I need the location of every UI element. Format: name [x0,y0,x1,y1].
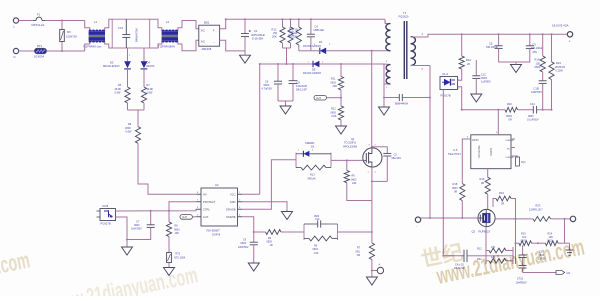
svg-text:0603: 0603 [331,111,337,114]
svg-text:10R: 10R [352,182,357,185]
svg-text:10nF/50V: 10nF/50V [131,228,142,231]
svg-text:C?03: C?03 [517,278,524,281]
svg-text:C8: C8 [297,81,301,85]
resistor R18 [452,139,471,218]
capacitor C1C [472,60,491,94]
svg-text:0603: 0603 [264,83,270,87]
ic U5 [448,110,518,169]
wire HV [138,143,197,194]
svg-text:U1-A: U1-A [442,72,448,76]
wire secondary return [421,66,431,219]
mosfet Q1 [343,51,382,232]
optocoupler U3B [97,204,116,226]
svg-text:SOP-8: SOP-8 [212,233,221,237]
svg-text:U2: U2 [215,183,219,187]
svg-text:75A-3D60T: 75A-3D60T [206,228,220,232]
svg-text:D5: D5 [312,68,316,72]
svg-text:0R: 0R [509,117,512,121]
svg-text:C4: C4 [315,25,319,29]
svg-text:BD1: BD1 [204,20,210,24]
wire DC bus+ [220,18,391,29]
capacitor C17 [516,265,527,284]
terminal secondary gnd [415,217,420,229]
svg-text:R1C: R1C [272,28,277,32]
svg-text:0603: 0603 [506,114,512,118]
capacitor C16 [519,245,547,265]
transformer T1 core [399,11,409,79]
svg-text:18.5V/3.42A: 18.5V/3.42A [552,24,569,28]
wire minus rail [495,218,533,220]
svg-text:CRE4B1: CRE4B1 [305,142,315,145]
svg-text:104/R50V: 104/R50V [516,281,527,284]
svg-text:F1: F1 [37,13,41,17]
diode D2 [296,142,331,168]
svg-text:12HR/1.2K7: 12HR/1.2K7 [529,209,543,212]
resistor R4A [458,34,472,80]
svg-text:R16: R16 [480,177,485,181]
svg-text:CTRL: CTRL [203,208,210,212]
resistor R21 [516,156,526,166]
svg-text:0.25W: 0.25W [556,70,564,73]
wire [278,101,293,106]
ground [379,107,390,115]
capacitor C9 [238,232,258,263]
resistor R22 [477,256,506,263]
svg-text:0603: 0603 [313,248,319,251]
svg-text:B5M4440M: B5M4440M [395,103,408,106]
svg-text:0603: 0603 [331,81,337,84]
capacitor C8 [289,64,308,101]
svg-text:C14: C14 [530,102,535,106]
svg-text:0R/1A8: 0R/1A8 [308,177,317,180]
svg-text:400V/100uF: 400V/100uF [251,33,266,37]
svg-text:2K: 2K [467,62,470,66]
varistor RV [60,21,78,52]
svg-text:R23: R23 [536,204,541,208]
svg-text:0603: 0603 [174,228,180,231]
wire [128,110,145,127]
transformer T1 aux winding [384,61,391,89]
svg-text:HV: HV [203,193,207,197]
svg-text:ABF408: ABF408 [202,47,212,51]
capacitor C5 [486,34,516,62]
svg-text:C7: C7 [136,220,140,224]
wire gnd pin [242,202,287,212]
resistor R16 [480,169,491,210]
svg-text:GPIO: GPIO [472,138,479,142]
wire sense [253,231,266,233]
svg-text:R4A: R4A [466,58,471,62]
svg-text:R24: R24 [556,61,561,65]
wire [383,64,385,107]
wire [551,218,571,220]
capacitor C14 [527,102,539,121]
svg-text:681/1KV: 681/1KV [392,157,402,160]
svg-text:D1: D1 [319,40,323,44]
svg-text:2W: 2W [290,30,294,34]
capacitor C7 [127,211,155,240]
earth ground [565,243,574,255]
svg-text:12K: 12K [536,61,541,65]
svg-text:SM-100uF: SM-100uF [531,46,544,50]
wire gate line [421,217,478,219]
ground [336,126,347,134]
wire [281,231,304,233]
svg-text:0603: 0603 [521,239,527,242]
svg-text:220P/50V: 220P/50V [238,246,249,249]
diode D1 [303,40,331,54]
wire bridge minus [220,40,245,51]
resistor R5B [304,236,338,255]
optocoupler U1A [440,72,460,98]
svg-text:100P/50V: 100P/50V [531,91,542,94]
svg-text:RT2: RT2 [176,253,181,256]
svg-text:TEA1761T: TEA1761T [448,152,461,156]
wire [304,231,373,233]
wire gate [296,159,364,161]
svg-text:0.6W: 0.6W [147,92,153,95]
wire [19,50,35,52]
svg-text:4.7uF/50: 4.7uF/50 [262,87,273,91]
svg-text:AUX: AUX [203,215,209,219]
svg-text:10K: 10K [175,232,180,235]
resistor R3 [288,19,301,51]
resistor R5 [115,84,131,110]
diode D5 [303,61,324,75]
resistor R11 [331,63,344,106]
svg-text:2W: 2W [273,31,277,35]
svg-text:R20: R20 [507,102,512,106]
svg-text:PC817B: PC817B [441,94,451,98]
capacitor C2 [371,146,402,183]
transformer T1 primary [385,22,391,51]
svg-text:U3-B: U3-B [102,204,108,208]
svg-text:0-0B/0B: 0-0B/0B [506,140,514,142]
svg-text:R12: R12 [331,108,336,111]
svg-text:C2: C2 [394,152,398,156]
svg-text:D3: D3 [110,61,114,65]
svg-text:RECOF: RECOF [147,66,156,68]
svg-text:DRAIN: DRAIN [490,148,493,156]
svg-text:OSR/0B: OSR/0B [226,215,236,219]
wire [45,20,85,22]
svg-text:A: A [379,262,381,266]
resistor R14 [545,233,558,246]
resistor R24 [549,34,566,109]
net flag AUX2 [314,95,342,100]
ground [280,106,291,114]
resistor R13 [296,165,331,180]
resistor R12 parallel [477,246,513,264]
resistor R7B [141,84,153,110]
svg-text:DRV/0B: DRV/0B [226,208,236,212]
svg-text:T12PNR-08HH: T12PNR-08HH [158,45,175,48]
svg-text:R18: R18 [453,182,458,186]
transformer T1 secondary [411,33,424,71]
test point A [371,262,384,273]
svg-text:49.9K: 49.9K [147,88,154,91]
svg-text:1.8K: 1.8K [314,252,319,255]
svg-text:C1C: C1C [481,73,486,77]
svg-text:0603: 0603 [452,187,458,190]
svg-text:0603: 0603 [535,65,541,69]
svg-text:U-5: U-5 [453,148,458,152]
wire drain node [326,50,390,52]
svg-text:D8-11.5P: D8-11.5P [296,88,307,92]
svg-text:C5: C5 [489,42,493,46]
svg-text:GND: GND [230,200,236,204]
terminal J2 neutral input [13,48,18,59]
svg-text:DR.SENSE: DR.SENSE [478,145,481,158]
svg-text:RS1OF-GRR1H: RS1OF-GRR1H [303,72,321,75]
resistor R1D [288,19,298,48]
choke L1 [83,19,112,51]
svg-text:HPOL10N60: HPOL10N60 [343,145,358,148]
fuse F1 [32,13,46,27]
svg-text:100uF/25: 100uF/25 [296,84,308,88]
wire protect [169,202,197,211]
svg-text:AUX: AUX [316,97,321,100]
capacitor CY1 [384,94,430,106]
resistor R9 [125,123,141,143]
svg-text:1uF/50V: 1uF/50V [481,80,491,84]
svg-text:RUF8623: RUF8623 [479,230,491,234]
svg-text:C1B: C1B [534,87,539,91]
thermistor RT1 [34,44,47,59]
diode D3 [103,48,131,87]
svg-text:PC817B: PC817B [101,221,111,225]
resistor R19 [493,191,516,219]
ground [248,263,259,271]
watermark [0,234,586,301]
wire sense line [515,219,565,264]
svg-text:220K: 220K [288,34,294,38]
svg-text:NTC-100K: NTC-100K [174,256,186,259]
net flag AUX [180,215,197,220]
svg-text:0R1: 0R1 [356,250,361,253]
resistor R15 [519,233,532,246]
svg-text:PQ2620: PQ2620 [399,15,409,19]
wire [19,20,33,22]
wire [283,48,291,65]
svg-text:C1: C1 [254,29,258,33]
svg-text:0.6W: 0.6W [115,92,121,95]
svg-text:GN: GN [567,272,571,275]
ground [282,212,293,220]
svg-text:+: + [569,39,571,43]
svg-text:CBB-22E: CBB-22E [314,29,325,32]
svg-text:T12PNR4O-Line: T12PNR4O-Line [83,45,102,48]
svg-text:25V: 25V [533,50,538,54]
resistor R8 [166,211,180,253]
resistor R4 [266,230,282,248]
svg-text:TO-220F/2: TO-220F/2 [344,142,357,145]
svg-text:0R: 0R [454,191,457,194]
svg-text:D-18-35H: D-18-35H [252,37,263,41]
svg-text:0603: 0603 [351,178,357,181]
resistor R23 [529,204,551,222]
svg-text:CX1: CX1 [118,26,124,30]
wire feedback [458,87,462,110]
svg-text:RT1: RT1 [37,44,43,48]
svg-text:R1A: R1A [535,58,540,62]
wire output bus [421,33,567,37]
svg-text:R11: R11 [331,78,336,81]
capacitor C15 [443,250,482,271]
svg-text:R13: R13 [310,174,315,177]
svg-text:R12: R12 [477,248,482,251]
terminal output plus [552,24,573,44]
capacitor CX1 [112,19,150,48]
svg-text:+: + [213,29,215,33]
svg-text:0R: 0R [501,203,504,206]
svg-text:0603: 0603 [481,76,487,80]
capacitor C3 [516,34,544,62]
svg-text:0.1uF/50V: 0.1uF/50V [527,118,539,121]
svg-text:SCK054: SCK054 [34,55,45,59]
resistor R1C [272,19,286,48]
svg-text:0R: 0R [481,182,484,185]
wire [47,50,85,52]
capacitor C6 [262,64,283,101]
svg-text:D4: D4 [147,61,151,65]
svg-text:0603: 0603 [528,115,534,118]
svg-text:6.8K: 6.8K [332,115,337,118]
svg-text:RS1OF-GRR1H: RS1OF-GRR1H [303,45,321,48]
svg-text:PROTECT: PROTECT [203,200,216,204]
capacitor C1B [531,72,547,110]
svg-text:Q2: Q2 [472,230,476,234]
svg-text:43R: 43R [333,85,338,88]
wire [486,227,513,256]
svg-text:R19: R19 [499,191,504,195]
wire vcc [242,63,261,194]
svg-text:0603: 0603 [314,216,320,218]
svg-text:T1: T1 [403,11,407,15]
resistor R6 [344,160,372,200]
svg-text:28.8K1%: 28.8K1% [555,66,566,69]
svg-text:20K: 20K [272,35,277,39]
svg-text:0.6W: 0.6W [126,131,132,134]
svg-text:R3: R3 [289,27,293,31]
thermistor RT2 [167,253,186,268]
svg-text:VCC: VCC [230,193,236,197]
capacitor C1 [241,19,266,51]
capacitor C4 [307,19,324,51]
svg-text:NC: NC [507,149,511,151]
svg-text:Q1: Q1 [351,137,355,141]
terminal J1 line input [13,18,18,29]
svg-text:MST31-2A: MST31-2A [32,23,45,27]
net flag GND out [523,271,571,275]
svg-text:C6: C6 [265,80,269,84]
wire [299,50,311,52]
svg-text:1R: 1R [270,244,273,247]
svg-text:0603: 0603 [267,241,273,244]
mosfet Q2 [472,209,496,233]
wire vcc rail [260,63,384,65]
svg-text:L2: L2 [166,20,170,24]
wire drv [242,160,296,210]
svg-text:RECOF-EPR1H: RECOF-EPR1H [103,66,120,68]
ground [240,51,251,63]
svg-text:0-0B/0B: 0-0B/0B [506,157,514,159]
choke L2 [150,19,199,51]
bridge rectifier BD1 [199,20,220,50]
svg-text:RV: RV [67,30,71,34]
ground [366,277,377,285]
svg-text:10D471K: 10D471K [66,35,77,39]
svg-text:SM-100uF: SM-100uF [486,45,499,49]
ground [511,62,522,73]
svg-text:200K: 200K [125,127,131,130]
capacitor C10 parallel [304,216,338,240]
terminal output minus [570,216,575,221]
svg-text:0603: 0603 [241,242,247,245]
resistor R20 [505,102,518,121]
svg-text:-: - [416,225,417,229]
resistor R1A [535,34,546,72]
svg-text:B4MA473M: B4MA473M [135,28,139,42]
ground [164,268,175,276]
svg-text:L1: L1 [94,20,98,24]
wire ctrl [116,209,197,212]
svg-text:0Q3: 0Q3 [521,162,526,164]
wire [116,217,129,247]
svg-text:C10: C10 [315,218,320,221]
svg-text:49.9K: 49.9K [115,88,122,91]
svg-text:43K: 43K [491,246,496,249]
wire ctrl line [461,109,553,111]
wire cs [242,217,254,232]
resistor R7 [356,232,375,277]
svg-text:C3: C3 [533,43,537,47]
ground [122,247,133,255]
ground [471,94,482,102]
resistor R12B [331,106,344,126]
svg-text:N: N [14,55,16,59]
wire U1A rail [442,90,444,257]
ic U2 [197,183,243,237]
svg-text:AUX: AUX [182,216,187,219]
diode D4 [141,48,156,87]
